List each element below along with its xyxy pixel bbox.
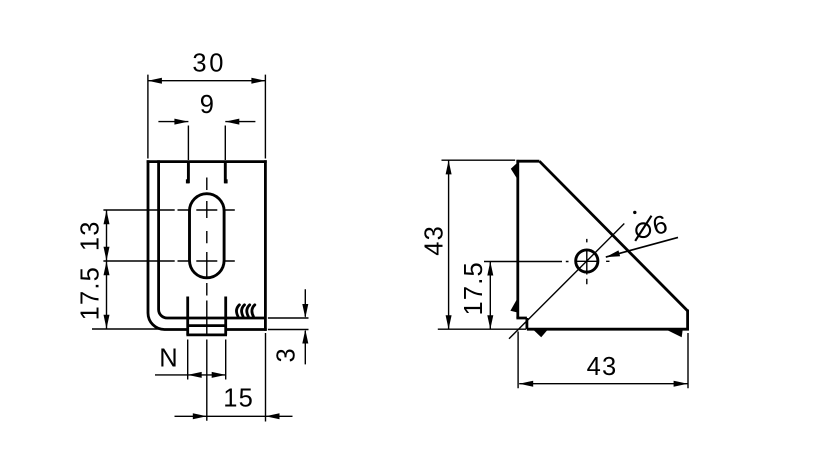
hole vertical centerline bbox=[586, 239, 588, 284]
hole circle Ø6 bbox=[576, 250, 598, 272]
dimension 17.5 right-view line bbox=[489, 262, 491, 330]
obround slot 9 wide bbox=[190, 194, 225, 278]
side view hypotenuse bbox=[539, 161, 687, 311]
bottom tab bottom edge bbox=[186, 333, 227, 336]
serration mark 1 bbox=[236, 305, 239, 317]
bracket front view top edge bbox=[147, 160, 267, 163]
bottom tab right edge bbox=[224, 297, 227, 335]
svg-text:43: 43 bbox=[587, 353, 618, 381]
dimension 43 bottom line bbox=[519, 383, 687, 385]
dimension 15 line bbox=[175, 415, 293, 417]
slot edge line hanging from top, left bbox=[187, 162, 190, 184]
dimension 13 arrows bbox=[104, 210, 110, 224]
side view bottom edge bbox=[527, 328, 689, 331]
dimension 43 left line bbox=[448, 160, 450, 329]
top-left barb bbox=[511, 164, 517, 178]
slot vertical centerline (dash-dot) bbox=[206, 178, 208, 421]
hook at bottom of right hanging line bbox=[224, 179, 227, 183]
slot edge line hanging from top, right bbox=[224, 162, 227, 184]
dimension 43 left arrows bbox=[446, 160, 452, 174]
slot upper centerline / 13 extension (dash-dot) bbox=[103, 209, 234, 211]
svg-text:17.5: 17.5 bbox=[77, 266, 105, 320]
bottom tab left edge bbox=[186, 297, 189, 335]
dimension 17.5 arrows bbox=[104, 261, 110, 275]
dimension 3 arrows bbox=[302, 304, 308, 318]
dimension N extension lines bbox=[188, 340, 226, 380]
dimension 9 extension lines bbox=[188, 126, 225, 161]
45 degree line through hole bbox=[509, 224, 624, 339]
svg-text:3: 3 bbox=[273, 347, 301, 362]
svg-text:17.5: 17.5 bbox=[460, 261, 488, 315]
diameter symbol circle bbox=[636, 223, 650, 237]
bracket front view left inner edge with bend and flange top surface bbox=[159, 160, 266, 318]
dimension 17.5 right-view arrows bbox=[487, 262, 493, 276]
svg-text:43: 43 bbox=[421, 225, 449, 256]
left foot bbox=[534, 330, 547, 337]
svg-text:30: 30 bbox=[192, 50, 226, 78]
dimension 3 extension lines bbox=[268, 318, 309, 330]
serration mark 2 bbox=[242, 305, 245, 317]
leader arrow bbox=[606, 250, 620, 257]
dimension N line bbox=[155, 374, 226, 376]
dimension N arrows bbox=[188, 372, 202, 378]
svg-text:9: 9 bbox=[200, 91, 215, 119]
svg-text:N: N bbox=[159, 344, 179, 372]
side view bottom-left step bbox=[516, 318, 527, 329]
svg-text:13: 13 bbox=[77, 220, 105, 251]
dimension 15 right extension line bbox=[265, 333, 267, 422]
serration mark 3 bbox=[247, 305, 250, 317]
dimension 43 left extension lines bbox=[438, 160, 526, 329]
lower-left barb bbox=[510, 300, 516, 312]
right foot bbox=[668, 330, 683, 337]
slot lower centerline / 13-17.5 extension (dash-dot) bbox=[103, 260, 234, 262]
dimension 13 / 17.5 shared line bbox=[106, 210, 108, 329]
bracket front view left outer edge with bend bbox=[148, 160, 188, 329]
side view left edge bbox=[516, 160, 519, 318]
dimension 43 bottom arrows bbox=[519, 381, 533, 387]
dimension 30 arrows bbox=[148, 78, 162, 84]
serration mark 4 bbox=[252, 305, 255, 317]
dimension 30 extension lines bbox=[148, 75, 266, 159]
bottom tab inner line bbox=[188, 324, 226, 327]
hole horizontal centerline / 17.5 extension bbox=[484, 260, 610, 262]
dimension 9 arrows bbox=[174, 119, 188, 125]
dimension 43 bottom extension lines bbox=[518, 332, 688, 389]
leader line for diameter callout bbox=[606, 237, 678, 257]
hook at bottom of left hanging line bbox=[186, 179, 189, 183]
dimension 30 line bbox=[148, 80, 266, 82]
side view top edge bbox=[516, 160, 539, 163]
side view right edge bbox=[686, 310, 689, 331]
diameter symbol slash bbox=[635, 216, 651, 241]
dimension 15 arrows bbox=[193, 413, 207, 419]
svg-text:15: 15 bbox=[223, 385, 254, 413]
bracket front view right outer edge bbox=[264, 160, 267, 331]
dimension 3 line segments bbox=[304, 289, 306, 364]
bottom extension line for 17.5 bbox=[92, 328, 163, 330]
45 degree line end dot bbox=[633, 211, 636, 214]
bracket front view bottom edge right of tab bbox=[225, 328, 267, 331]
dimension 9 line bbox=[158, 121, 255, 123]
